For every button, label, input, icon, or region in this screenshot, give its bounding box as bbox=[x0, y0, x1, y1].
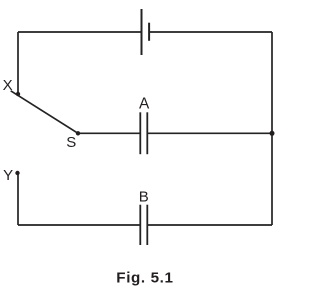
wire S to capacitor A bbox=[78, 132, 140, 134]
wire bottom-right horizontal bbox=[148, 224, 272, 226]
svg-text:B: B bbox=[139, 189, 149, 206]
svg-text:Y: Y bbox=[3, 167, 13, 184]
battery short plate bbox=[148, 23, 150, 41]
battery long plate bbox=[141, 9, 143, 55]
node X dot bbox=[16, 92, 20, 96]
wire left vertical to X bbox=[17, 32, 19, 94]
wire right vertical bbox=[271, 32, 273, 225]
switch S blade bbox=[11, 91, 78, 134]
wire Y vertical bbox=[17, 173, 19, 225]
svg-text:X: X bbox=[3, 77, 13, 94]
wire bottom-left horizontal bbox=[18, 224, 140, 226]
wire top-right horizontal bbox=[149, 31, 272, 33]
wire top-left horizontal bbox=[18, 31, 142, 33]
node Y dot bbox=[15, 171, 19, 175]
junction dot right rail bbox=[270, 131, 275, 136]
svg-text:A: A bbox=[139, 95, 150, 112]
node S dot bbox=[76, 131, 80, 135]
svg-text:S: S bbox=[66, 134, 76, 151]
capacitor A right plate bbox=[146, 112, 148, 154]
capacitor B right plate bbox=[146, 205, 148, 245]
svg-text:Fig. 5.1: Fig. 5.1 bbox=[116, 270, 173, 287]
capacitor B left plate bbox=[139, 205, 141, 245]
wire capacitor A to right rail bbox=[148, 132, 272, 134]
capacitor A left plate bbox=[139, 112, 141, 154]
